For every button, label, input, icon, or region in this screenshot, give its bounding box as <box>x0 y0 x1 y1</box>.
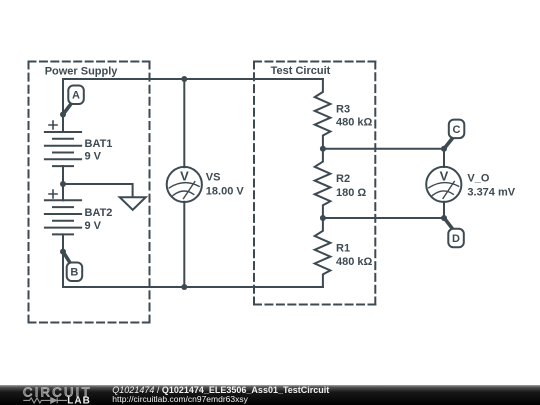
wire mid-battery tap to ground <box>63 184 133 197</box>
svg-text:R3: R3 <box>336 104 350 116</box>
junction dot VS bottom <box>181 284 187 290</box>
svg-text:3.374 mV: 3.374 mV <box>467 187 515 199</box>
svg-text:B: B <box>70 267 78 279</box>
svg-text:BAT1: BAT1 <box>85 138 113 150</box>
svg-text:480 kΩ: 480 kΩ <box>336 116 373 128</box>
svg-text:http://circuitlab.com/cn97emdr: http://circuitlab.com/cn97emdr63xsy <box>112 394 248 404</box>
junction dot R3-R2 <box>320 146 326 152</box>
svg-text:18.00 V: 18.00 V <box>206 186 245 198</box>
wire from top rail down to BAT1 + terminal <box>62 79 64 132</box>
junction dot VS top <box>181 76 187 82</box>
voltmeter VS <box>167 167 202 202</box>
svg-text:BAT2: BAT2 <box>85 207 113 219</box>
junction dot mid-battery ground tap <box>60 181 66 187</box>
node D flag <box>444 218 464 248</box>
node A flag <box>63 86 84 115</box>
CircuitLab logo resistor-diode glyph <box>23 397 67 403</box>
svg-text:180 Ω: 180 Ω <box>336 187 366 199</box>
svg-text:Power Supply: Power Supply <box>45 65 119 77</box>
junction dot at node B tap <box>60 249 66 255</box>
battery BAT1 <box>45 121 81 166</box>
resistor R2 <box>315 149 331 218</box>
wire bottom rail (node B rail) <box>63 286 323 288</box>
junction dot R2-R1 <box>320 215 326 221</box>
resistor R1 <box>315 218 331 287</box>
svg-text:V_O: V_O <box>467 173 489 185</box>
svg-text:9 V: 9 V <box>85 220 102 232</box>
wire middle rail R3/R2 junction to node C <box>323 148 444 150</box>
svg-text:V: V <box>180 168 189 183</box>
svg-text:9 V: 9 V <box>85 150 102 162</box>
wire BAT1 minus to BAT2 plus <box>62 166 64 200</box>
wire V_O top stem <box>443 149 445 167</box>
node B flag <box>63 252 82 281</box>
junction dot at node A tap <box>60 112 66 118</box>
battery BAT2 <box>45 190 81 234</box>
junction dot node C <box>441 146 447 152</box>
Power Supply enclosure box <box>29 62 150 323</box>
resistor R3 <box>315 79 331 149</box>
node C flag <box>444 120 464 149</box>
svg-text:Test Circuit: Test Circuit <box>271 65 331 77</box>
wire VS bottom stem <box>183 202 185 287</box>
junction dot node D <box>441 215 447 221</box>
wire lower-middle rail R2/R1 junction to node D <box>323 217 444 219</box>
svg-text:A: A <box>72 90 80 102</box>
wire BAT2 minus down to bottom rail <box>62 234 64 287</box>
ground <box>120 197 146 210</box>
svg-text:V: V <box>440 168 449 183</box>
wire V_O bottom stem <box>443 202 445 218</box>
svg-text:C: C <box>453 124 461 136</box>
svg-text:480 kΩ: 480 kΩ <box>336 256 373 268</box>
voltmeter V_O <box>426 167 461 202</box>
svg-text:VS: VS <box>206 172 221 184</box>
svg-text:R2: R2 <box>336 173 350 185</box>
wire top rail (node A rail) <box>63 78 323 80</box>
svg-text:D: D <box>452 233 460 245</box>
svg-text:R1: R1 <box>336 243 350 255</box>
footer bar <box>0 385 540 405</box>
svg-text:LAB: LAB <box>67 395 91 405</box>
wire VS top stem <box>183 79 185 167</box>
Test Circuit enclosure box <box>254 62 375 305</box>
